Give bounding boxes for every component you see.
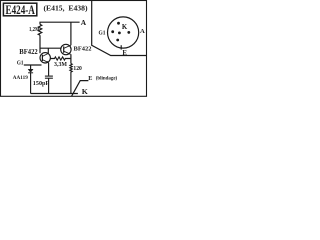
svg-text:BF422: BF422 bbox=[19, 49, 38, 56]
wire Q2 collector up bbox=[47, 48, 49, 53]
node E terminal stub bbox=[72, 81, 89, 97]
svg-text:E: E bbox=[88, 75, 92, 82]
resistor R2 3,3M zigzag bbox=[50, 57, 71, 60]
wire Q2 emitter down bbox=[48, 63, 50, 76]
svg-text:150pF: 150pF bbox=[33, 81, 50, 87]
transistor Q1 BF422 (upper) bbox=[61, 44, 71, 54]
svg-text:1,2M: 1,2M bbox=[29, 27, 40, 33]
svg-text:3,3M: 3,3M bbox=[54, 61, 67, 68]
resistor R3 120 zigzag bbox=[70, 64, 72, 73]
border frame bbox=[1, 1, 147, 97]
wire R3 to ground rail bbox=[70, 73, 72, 94]
wire diode drop bbox=[30, 65, 32, 69]
svg-text:BF422: BF422 bbox=[74, 45, 92, 52]
svg-text:(E415, E438): (E415, E438) bbox=[44, 3, 89, 12]
title box E424-A bbox=[3, 3, 36, 16]
socket shield tick E bbox=[120, 45, 122, 49]
socket pin dot middle bbox=[118, 32, 121, 35]
wire base link to Q1 bbox=[40, 47, 61, 49]
socket pin dot top bbox=[117, 22, 120, 25]
wire G1 input bbox=[24, 64, 42, 66]
panel divider bbox=[92, 1, 147, 56]
svg-text:AA119: AA119 bbox=[13, 75, 28, 81]
capacitor C1 150pF bbox=[45, 76, 53, 78]
transistor Q2 BF422 (lower) bbox=[40, 53, 50, 63]
socket pin dot bottom bbox=[116, 39, 119, 42]
svg-text:A: A bbox=[81, 18, 87, 27]
socket pin dot right bbox=[127, 31, 130, 34]
svg-text:K: K bbox=[82, 87, 88, 96]
wire capacitor to ground rail bbox=[48, 78, 50, 93]
svg-text:A: A bbox=[140, 28, 145, 35]
socket pin dot left bbox=[111, 30, 114, 33]
svg-text:G1: G1 bbox=[17, 59, 24, 66]
svg-text:E424-A: E424-A bbox=[6, 2, 36, 17]
svg-text:G1: G1 bbox=[99, 30, 106, 37]
wire ground rail bbox=[31, 93, 78, 95]
diode D1 AA119 bbox=[28, 69, 33, 73]
wire Q1 collector to rail bbox=[70, 22, 72, 45]
socket outline circle bbox=[108, 17, 139, 48]
resistor R1 1,2M zigzag bbox=[38, 24, 42, 35]
wire Q1 emitter down bbox=[70, 54, 72, 63]
wire base vertical bbox=[39, 35, 41, 53]
svg-text:(blindage): (blindage) bbox=[96, 74, 118, 81]
wire top rail bbox=[40, 22, 80, 24]
svg-text:E: E bbox=[122, 50, 127, 57]
svg-text:K: K bbox=[122, 24, 128, 31]
svg-text:120: 120 bbox=[73, 65, 81, 72]
wire diode to ground rail bbox=[30, 73, 32, 94]
